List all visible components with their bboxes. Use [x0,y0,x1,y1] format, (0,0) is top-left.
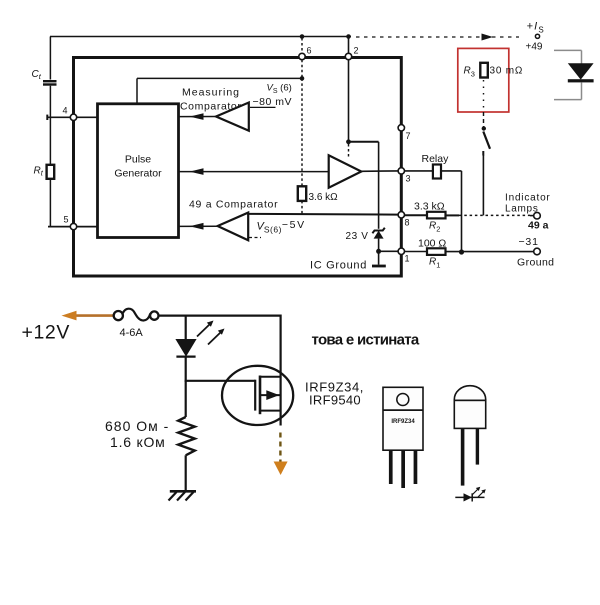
wire pin 3 to relay corner [405,170,462,172]
package TO-220 mounting hole [397,394,409,406]
package LED dome [454,386,485,401]
svg-text:23 V: 23 V [346,231,369,242]
wire middle comparator output to pin 3 [361,170,398,172]
wire pin 8 to R2 [405,214,428,216]
svg-text:Measuring: Measuring [182,87,240,99]
svg-text:1.6 кОм: 1.6 кОм [110,434,166,450]
resistor R1 100 Ohm [427,248,446,255]
diode D1 [568,63,594,79]
resistor R3 [480,63,488,78]
package TO-220 legs [389,450,393,484]
wire fuse to top right corner [158,315,280,317]
diode top right wires [554,49,582,51]
terminal circle 49a [534,212,541,219]
pin 4 circle [70,114,76,120]
svg-text:−80 mV: −80 mV [253,96,292,108]
wire riser from pulse generator top [136,78,138,103]
switch lower contact [482,151,484,156]
svg-text:IRF9Z34: IRF9Z34 [391,419,415,425]
svg-text:680 Ом -: 680 Ом - [105,418,169,434]
svg-text:30 mΩ: 30 mΩ [490,66,524,77]
LED light arrows [197,323,211,337]
wire comparator output to pulse generator [179,116,217,118]
svg-text:Generator: Generator [114,168,162,180]
wire LED branch down [185,316,187,339]
svg-text:2: 2 [354,46,359,56]
svg-text:VS (6): VS (6) [267,83,292,96]
node junction dot pin6 column on top line [300,34,305,39]
svg-text:49 a: 49 a [528,220,549,232]
node junction dot [376,249,381,254]
capacitor Ct plates [43,80,57,82]
block Pulse Generator [98,104,179,238]
wire below zener [378,239,380,265]
LED symbol small [455,496,484,498]
wire dashed red box to switch [483,112,485,127]
LED D2 [175,339,196,357]
wire top dashed line to +49 [356,36,519,38]
transistor Q1 middle stub with arrow [260,394,281,396]
pin 5 circle [70,223,76,229]
arrow into pulse generator [190,168,204,175]
svg-text:+12V: +12V [22,322,70,344]
wire dotted below R3 [483,80,485,112]
package LED body [454,400,485,428]
svg-text:IRF9540: IRF9540 [309,393,361,408]
wire orange feed arrow [70,314,114,317]
wire zener column down [378,142,380,229]
wire gate horizontal [185,380,256,382]
svg-text:8: 8 [405,218,410,228]
switch contact dot [482,126,486,130]
resistor Rt [47,165,55,179]
svg-text:Pulse: Pulse [125,154,151,166]
wire comparator top to pin 8 [248,213,398,216]
wire comparator input from pulse generator [179,171,329,173]
package LED legs [461,428,465,485]
pin 2 stub from top line [348,37,350,54]
pin 1 circle [398,248,404,254]
op-amp middle comparator triangle [329,155,362,187]
wire left line middle segment [49,86,51,165]
wire LED to gate node [185,357,187,382]
node junction dot at pin6 column [300,76,305,81]
package TO-220 tab separator [383,409,423,411]
svg-text:5: 5 [64,215,69,225]
svg-text:3: 3 [406,174,411,184]
svg-text:100 Ω: 100 Ω [418,238,446,250]
wire drain vertical [280,315,282,426]
ground bar IC [372,265,386,268]
svg-text:Indicator: Indicator [505,193,551,204]
node junction dot pin2 column on top line [346,34,351,39]
transistor Q1 gate electrode [254,380,256,411]
wire small dashes below [249,237,261,239]
svg-text:Lamps: Lamps [505,204,539,215]
svg-text:3.3 kΩ: 3.3 kΩ [414,201,445,213]
svg-text:Relay: Relay [422,153,450,165]
wire dashed into comparator [348,144,350,159]
MOSFET body circle [222,366,293,425]
wire orange dashed output arrow [279,433,281,463]
wire to pin 1 [379,250,399,252]
resistor 3.6 kOhm [298,186,306,201]
wire pin 1 to R1 [405,251,428,253]
svg-text:6: 6 [307,46,312,56]
arrow into pulse generator [190,113,204,120]
wire left line lower segment [49,179,51,228]
wire R2 to lamp terminal [446,214,460,216]
svg-text:Ground: Ground [517,257,554,269]
ground symbol [170,490,196,493]
transistor Q1 drain stub [260,376,281,378]
wire R1 to ground terminal [446,251,534,253]
wire relay drop [461,171,463,252]
arrow into pulse generator [190,223,204,230]
transistor Q1 channel line [259,376,262,415]
wire small underline [250,106,276,108]
wire junction to zener column [349,141,379,143]
shunt R3 red box [458,48,509,112]
wire pin 4 horizontal [47,116,98,118]
node junction dot [346,139,351,144]
wire resistor branch down [185,381,187,417]
wire pin6 dashed down [301,60,303,79]
arrow current direction on top dashed line [482,34,494,41]
svg-text:7: 7 [406,131,411,141]
resistor R2 3.3k [427,212,446,219]
relay coil [433,165,441,179]
op-amp measuring comparator triangle [216,103,249,131]
svg-text:4: 4 [63,106,68,116]
op-amp 49a comparator triangle [218,213,249,241]
terminal o [535,34,539,38]
pin 7 circle [398,125,404,131]
wire outer left line upper segment [49,37,51,80]
wire pin 5 horizontal [48,226,98,228]
pin 2 circle [345,53,351,59]
node junction dot on R1 line [459,249,464,254]
wire outer top line [50,36,351,38]
terminal circle ground [534,248,541,255]
wire switch down to lamp line [482,155,484,215]
svg-text:+49: +49 [526,42,543,53]
wire pin2 down [348,60,350,142]
svg-text:−31: −31 [519,236,539,248]
package TO-220 body [383,387,423,450]
terminal tick pin4 wire left end [46,115,48,120]
svg-text:49 a Comparator: 49 a Comparator [189,199,278,211]
fuse F1 4-6A [114,311,123,320]
wire horizontal to pin6 column [137,77,302,79]
pin 3 circle [398,168,404,174]
transistor Q1 source stub [260,410,281,412]
resistor R4 zigzag [178,417,195,455]
pin 8 circle [398,212,404,218]
svg-text:това е истината: това е истината [312,332,420,349]
wire dashed below 3.6k [301,201,303,214]
wire input from pulse generator [179,225,218,227]
pin 6 stub dashed from top line [301,38,303,53]
pin 6 circle [299,53,305,59]
svg-text:1: 1 [405,254,410,264]
svg-text:3.6 kΩ: 3.6 kΩ [309,192,339,203]
svg-text:IC Ground: IC Ground [310,260,367,272]
IC boundary box [74,58,402,277]
wire resistor to ground [185,455,187,491]
switch blade [483,132,490,149]
svg-text:4-6A: 4-6A [120,327,144,339]
